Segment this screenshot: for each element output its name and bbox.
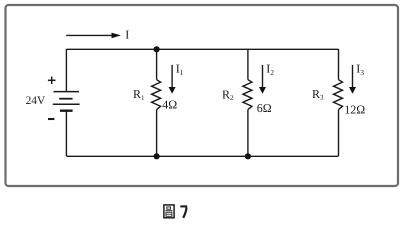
svg-text:4Ω: 4Ω [162,97,177,111]
svg-text:I: I [125,28,129,42]
svg-text:24V: 24V [26,95,46,107]
svg-text:6Ω: 6Ω [257,101,272,115]
svg-text:12Ω: 12Ω [344,102,365,116]
